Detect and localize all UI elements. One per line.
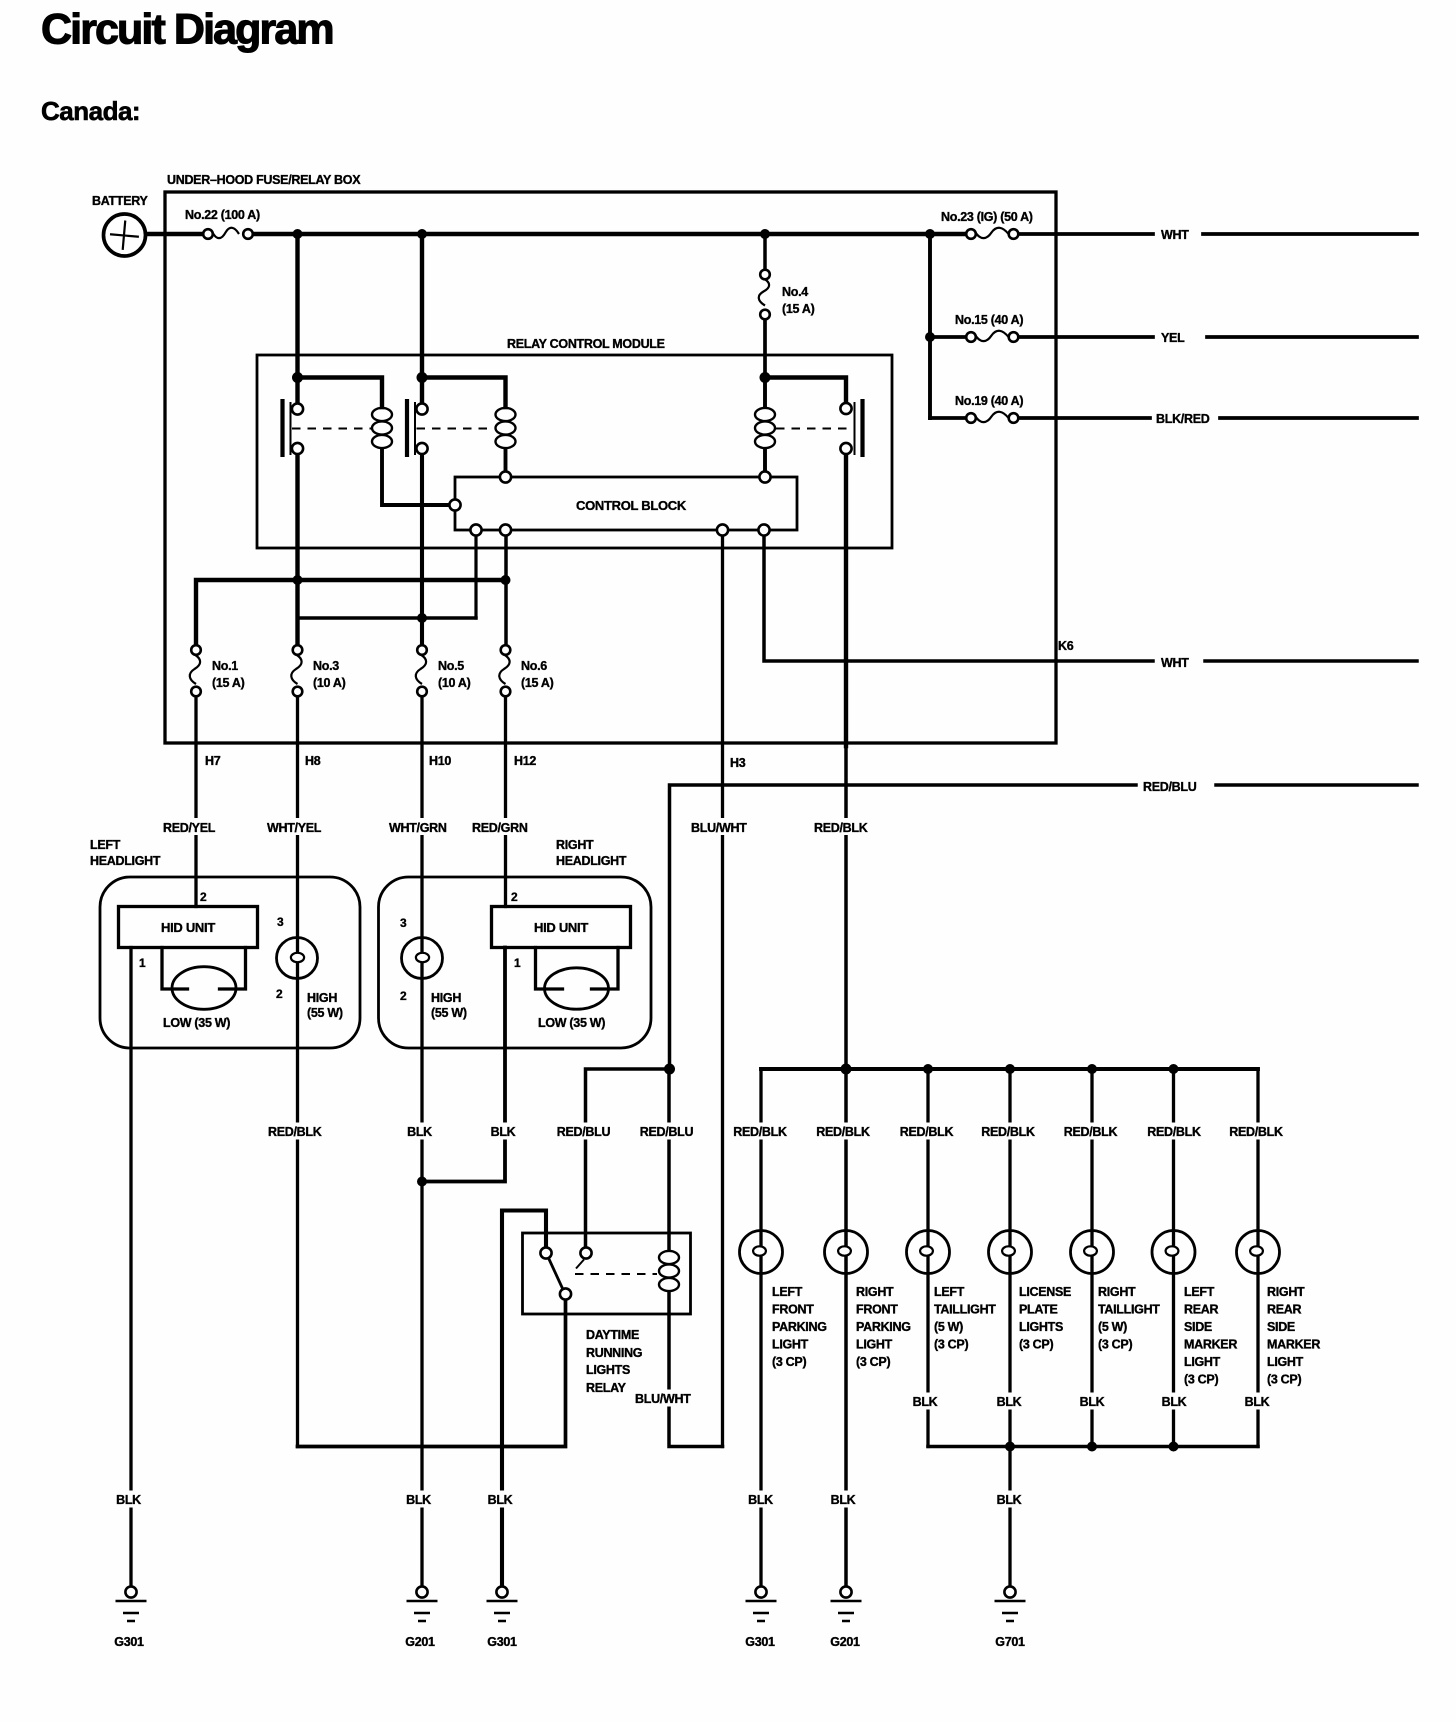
svg-text:RED/BLK: RED/BLK <box>816 1125 870 1139</box>
svg-text:G301: G301 <box>745 1635 775 1649</box>
relay 2 switch contacts <box>407 399 494 457</box>
svg-text:1: 1 <box>139 956 146 970</box>
node bus-relay2 <box>417 229 427 239</box>
wire WHT output after No.23 <box>1019 232 1418 236</box>
right headlight box <box>379 877 652 1048</box>
svg-text:RED/BLK: RED/BLK <box>1064 1125 1118 1139</box>
label RED/BLU coil <box>636 1123 698 1140</box>
left high beam bulb HIGH (55 W) <box>277 938 318 979</box>
label left front parking light <box>772 1285 827 1369</box>
label BLK parking2 ground <box>828 1491 859 1508</box>
node bus-feeder <box>925 229 935 239</box>
svg-text:LIGHT: LIGHT <box>856 1338 893 1352</box>
right taillight bulb <box>1071 1231 1114 1274</box>
node BLK link <box>417 1177 427 1187</box>
battery <box>104 214 146 256</box>
left HID unit box <box>119 907 258 948</box>
label BLK bulb6 <box>1159 1393 1190 1410</box>
label RED/BLK bulb6 <box>1144 1123 1205 1140</box>
wire RED/BLK down to parking light bus <box>844 746 848 1586</box>
wire bus down to relay 2 <box>420 234 424 404</box>
svg-text:REAR: REAR <box>1184 1303 1218 1317</box>
svg-text:LICENSE: LICENSE <box>1019 1285 1071 1299</box>
svg-text:HID UNIT: HID UNIT <box>161 920 215 935</box>
svg-text:BLK: BLK <box>997 1493 1022 1507</box>
svg-text:(3 CP): (3 CP) <box>1184 1373 1218 1387</box>
relay 3 switch contacts <box>776 399 863 457</box>
svg-text:No.15 (40 A): No.15 (40 A) <box>955 313 1023 327</box>
svg-text:WHT: WHT <box>1161 228 1189 242</box>
wire DRL relay contact feed to ground <box>502 1211 546 1587</box>
svg-text:K6: K6 <box>1058 639 1074 653</box>
wire main bus after No.22 <box>254 232 967 236</box>
svg-text:No.5: No.5 <box>438 659 464 673</box>
fuse No.6 (15 A) <box>499 645 510 696</box>
relay 3 coil <box>755 408 775 448</box>
wire coil 1 to control block left pin <box>382 449 450 505</box>
wire relay 2 switch down to fuse No.5 <box>420 454 424 646</box>
label BLK bulb5 <box>1077 1393 1108 1410</box>
svg-text:2: 2 <box>400 989 407 1003</box>
svg-text:Circuit Diagram: Circuit Diagram <box>41 6 333 54</box>
label RED/BLK bulb3 <box>896 1123 957 1140</box>
svg-text:H3: H3 <box>730 756 746 770</box>
label BLK bulb7 <box>1242 1393 1273 1410</box>
svg-text:BLK: BLK <box>491 1125 516 1139</box>
label BLK col4 <box>487 1123 518 1140</box>
svg-text:No.3: No.3 <box>313 659 339 673</box>
ground G301 (left front parking) <box>746 1586 777 1621</box>
svg-text:H12: H12 <box>514 754 536 768</box>
svg-text:No.19 (40 A): No.19 (40 A) <box>955 394 1023 408</box>
label BLK DRL ground <box>485 1491 516 1508</box>
svg-text:SIDE: SIDE <box>1184 1320 1212 1334</box>
label right front parking light <box>856 1285 911 1369</box>
svg-text:RIGHT: RIGHT <box>1098 1285 1136 1299</box>
label RED/BLK bulb2 <box>813 1123 874 1140</box>
svg-text:G701: G701 <box>995 1635 1025 1649</box>
wire fuse No.3 through left high beam (WHT/YEL, RED/BLK) <box>296 696 299 1447</box>
node ground bus-license <box>1005 1442 1015 1452</box>
svg-text:No.1: No.1 <box>212 659 238 673</box>
label RED/BLK bulb7 <box>1226 1123 1287 1140</box>
label RED/GRN <box>470 818 534 835</box>
svg-text:RED/BLU: RED/BLU <box>557 1125 611 1139</box>
svg-text:LEFT: LEFT <box>772 1285 803 1299</box>
wire left high beam return to DRL relay switch <box>298 1300 566 1447</box>
wire left taillight drop <box>926 1069 929 1447</box>
wire RED/BLU to DRL relay coil <box>667 1069 671 1250</box>
label right taillight <box>1098 1285 1160 1352</box>
svg-text:DAYTIME: DAYTIME <box>586 1328 639 1342</box>
wire parking lights bus <box>761 1067 1258 1071</box>
svg-text:2: 2 <box>200 890 207 904</box>
svg-text:No.4: No.4 <box>782 285 808 299</box>
wire RED/BLU branch to relay contact <box>586 1069 670 1248</box>
wire node to coil 1 top <box>298 378 383 408</box>
wire H3 control block pin down (BLU/WHT) <box>721 536 724 1447</box>
svg-text:TAILLIGHT: TAILLIGHT <box>1098 1303 1160 1317</box>
node feeder-No.15 <box>925 332 935 342</box>
svg-text:WHT/YEL: WHT/YEL <box>267 821 322 835</box>
wire right taillight drop <box>1090 1069 1093 1447</box>
wire fuse No.6 to right HID unit (RED/GRN) <box>504 696 507 907</box>
wire right HID unit down (BLK) <box>422 948 505 1182</box>
license plate lights bulb <box>989 1231 1032 1274</box>
svg-text:2: 2 <box>276 987 283 1001</box>
fuse No.5 (10 A) <box>416 645 427 696</box>
wire fuse feeder vertical <box>928 234 932 418</box>
wire DRL coil out (BLU/WHT) to H3 <box>669 1292 723 1447</box>
label BLK left headlight ground <box>113 1491 144 1508</box>
label RED/BLU contact <box>553 1123 615 1140</box>
label BLU/WHT <box>689 818 753 835</box>
svg-text:WHT/GRN: WHT/GRN <box>389 821 447 835</box>
svg-text:(3 CP): (3 CP) <box>856 1355 890 1369</box>
wire BLK/RED output after No.19 <box>1019 416 1418 420</box>
label BLK parking1 ground <box>745 1491 776 1508</box>
label right rear side marker light <box>1267 1285 1320 1387</box>
wire right rear side marker drop <box>1256 1069 1259 1447</box>
node bus-left marker <box>1169 1064 1179 1074</box>
left low beam bulb LOW (35 W) <box>172 967 236 1010</box>
left rear side marker light bulb <box>1152 1231 1195 1274</box>
right rear side marker light bulb <box>1237 1231 1280 1274</box>
right low beam bulb LOW (35 W) <box>545 968 609 1009</box>
relay 1 switch contacts <box>283 399 372 457</box>
right HID unit box <box>492 907 631 948</box>
svg-text:H8: H8 <box>305 754 321 768</box>
svg-text:BLK/RED: BLK/RED <box>1156 412 1210 426</box>
svg-text:PARKING: PARKING <box>856 1320 911 1334</box>
svg-text:BLK: BLK <box>997 1395 1022 1409</box>
left front parking light bulb <box>740 1231 783 1274</box>
daytime running lights relay coil <box>659 1251 679 1291</box>
svg-text:YEL: YEL <box>1161 331 1185 345</box>
wire bus to fuse No.3 <box>298 616 477 619</box>
svg-text:LIGHTS: LIGHTS <box>586 1363 630 1377</box>
label RED/BLK bulb4 <box>978 1123 1039 1140</box>
wire relay 3 switch down (RED/BLK) <box>844 454 848 747</box>
svg-text:No.6: No.6 <box>521 659 547 673</box>
wire coil 3 to control block top pin <box>763 449 767 472</box>
svg-text:BLK: BLK <box>1245 1395 1270 1409</box>
wire stub to No.19 fuse <box>930 416 966 420</box>
svg-text:BLK: BLK <box>488 1493 513 1507</box>
svg-text:(55 W): (55 W) <box>307 1006 343 1020</box>
relay control module box <box>257 355 892 548</box>
fuse No.15 (40 A) <box>966 331 1018 342</box>
svg-text:RED/BLK: RED/BLK <box>900 1125 954 1139</box>
wire coil 2 to control block top pin <box>504 449 508 472</box>
node ground bus-right taillight <box>1087 1442 1097 1452</box>
node bus-No.4 <box>760 229 770 239</box>
fuse No.4 (15 A) <box>759 270 770 320</box>
node relay3 top <box>760 372 771 383</box>
label BLU/WHT coil out <box>633 1390 697 1407</box>
svg-text:RED/BLK: RED/BLK <box>814 821 868 835</box>
svg-text:Canada:: Canada: <box>41 96 140 126</box>
svg-text:RED/BLK: RED/BLK <box>268 1125 322 1139</box>
svg-text:3: 3 <box>400 916 407 930</box>
svg-text:BLU/WHT: BLU/WHT <box>691 821 747 835</box>
svg-text:(3 CP): (3 CP) <box>934 1338 968 1352</box>
wire control block pin to fuse No.3 bus <box>474 536 477 619</box>
ground G301 (left headlight) <box>116 1586 147 1621</box>
svg-text:BLK: BLK <box>407 1125 432 1139</box>
svg-text:(3 CP): (3 CP) <box>1098 1338 1132 1352</box>
node bus-license <box>1005 1064 1015 1074</box>
label WHT/YEL <box>265 818 327 835</box>
svg-text:HIGH: HIGH <box>431 991 461 1005</box>
control block box U1 <box>455 477 797 530</box>
svg-text:TAILLIGHT: TAILLIGHT <box>934 1303 996 1317</box>
wire RED/BLU input line <box>670 785 1418 1069</box>
svg-text:RED/BLK: RED/BLK <box>981 1125 1035 1139</box>
svg-text:(55 W): (55 W) <box>431 1006 467 1020</box>
node No.6-bus <box>501 575 511 585</box>
node relay1 top <box>292 372 303 383</box>
svg-text:RED/BLU: RED/BLU <box>640 1125 694 1139</box>
svg-text:RIGHT: RIGHT <box>1267 1285 1305 1299</box>
label RED/BLK bulb1 <box>730 1123 791 1140</box>
wire stub to No.15 fuse <box>930 335 966 339</box>
node ground bus-left marker <box>1169 1442 1179 1452</box>
svg-text:(15 A): (15 A) <box>212 676 245 690</box>
svg-text:RED/BLK: RED/BLK <box>1229 1125 1283 1139</box>
wire license plate lights drop to ground <box>1008 1069 1011 1586</box>
svg-text:BLU/WHT: BLU/WHT <box>635 1392 691 1406</box>
wire right low beam legs <box>536 948 619 990</box>
wire control block pin to fuse No.6 <box>504 536 508 644</box>
wire fuse No.1 to left HID unit (RED/YEL) <box>194 696 197 907</box>
svg-text:1: 1 <box>514 956 521 970</box>
svg-text:CONTROL BLOCK: CONTROL BLOCK <box>576 498 687 513</box>
svg-text:FRONT: FRONT <box>856 1303 898 1317</box>
svg-text:RED/YEL: RED/YEL <box>163 821 216 835</box>
svg-text:No.22 (100 A): No.22 (100 A) <box>185 208 260 222</box>
svg-text:(15 A): (15 A) <box>782 302 815 316</box>
relay 2 coil <box>496 408 516 448</box>
node bus-relay1 <box>293 229 303 239</box>
svg-text:WHT: WHT <box>1161 656 1189 670</box>
svg-text:G301: G301 <box>487 1635 517 1649</box>
svg-text:LEFT: LEFT <box>90 838 121 852</box>
svg-text:LOW (35 W): LOW (35 W) <box>538 1016 605 1030</box>
svg-text:MARKER: MARKER <box>1184 1338 1237 1352</box>
wire bus to fuse No.4 <box>763 234 767 270</box>
svg-text:H10: H10 <box>429 754 451 768</box>
label BLK G701 ground <box>994 1491 1025 1508</box>
svg-text:BLK: BLK <box>748 1493 773 1507</box>
wire control block pin to K6 WHT output <box>764 536 1417 662</box>
svg-text:LIGHTS: LIGHTS <box>1019 1320 1063 1334</box>
wire battery to fuse No.22 <box>146 232 204 236</box>
wire node to coil 2 top <box>422 378 506 408</box>
under-hood fuse/relay box <box>165 192 1056 743</box>
node bus-left taillight <box>923 1064 933 1074</box>
wire node to relay 3 switch <box>765 378 846 404</box>
ground G701 (rear lights) <box>995 1586 1026 1621</box>
left headlight box <box>100 877 360 1048</box>
node bus-right taillight <box>1087 1064 1097 1074</box>
ground G301 (DRL relay) <box>487 1586 518 1621</box>
svg-text:PARKING: PARKING <box>772 1320 827 1334</box>
control block pins <box>449 471 770 535</box>
ground G201 (right front parking) <box>831 1586 862 1621</box>
svg-text:No.23 (IG) (50 A): No.23 (IG) (50 A) <box>941 210 1033 224</box>
svg-text:HID UNIT: HID UNIT <box>534 920 588 935</box>
label license plate lights <box>1019 1285 1071 1352</box>
fuse No.23 (IG) (50 A) <box>966 228 1018 239</box>
svg-text:MARKER: MARKER <box>1267 1338 1320 1352</box>
wire rear lights ground bus <box>928 1445 1258 1449</box>
svg-text:LIGHT: LIGHT <box>1267 1355 1304 1369</box>
svg-text:(15 A): (15 A) <box>521 676 554 690</box>
svg-text:RED/BLU: RED/BLU <box>1143 780 1197 794</box>
right front parking light bulb <box>825 1231 868 1274</box>
svg-text:H7: H7 <box>205 754 221 768</box>
wire relay 1 switch down to bus node <box>295 454 299 646</box>
svg-text:(3 CP): (3 CP) <box>1019 1338 1053 1352</box>
svg-text:LIGHT: LIGHT <box>772 1338 809 1352</box>
label RED/BLK relay3 <box>812 818 873 835</box>
svg-text:3: 3 <box>277 915 284 929</box>
fuse No.3 (10 A) <box>291 645 302 696</box>
svg-text:HEADLIGHT: HEADLIGHT <box>556 854 627 868</box>
fuse No.22 (100 A) <box>203 228 253 239</box>
wire fuse No.4 to relay node <box>763 320 767 378</box>
svg-text:LIGHT: LIGHT <box>1184 1355 1221 1369</box>
svg-text:RELAY CONTROL MODULE: RELAY CONTROL MODULE <box>507 337 665 351</box>
svg-text:RED/BLK: RED/BLK <box>1147 1125 1201 1139</box>
svg-text:(10 A): (10 A) <box>438 676 471 690</box>
right high beam bulb HIGH (55 W) <box>402 938 443 979</box>
wire YEL output after No.15 <box>1019 335 1418 339</box>
node No.5-bus <box>417 613 427 623</box>
label BLK col3 <box>404 1123 435 1140</box>
svg-text:BLK: BLK <box>116 1493 141 1507</box>
label RED/YEL <box>161 818 221 835</box>
fuse No.1 (15 A) <box>190 645 201 696</box>
svg-text:PLATE: PLATE <box>1019 1303 1058 1317</box>
wire left rear side marker drop <box>1172 1069 1175 1447</box>
svg-text:SIDE: SIDE <box>1267 1320 1295 1334</box>
svg-text:(10 A): (10 A) <box>313 676 346 690</box>
svg-text:BLK: BLK <box>1080 1395 1105 1409</box>
wire fuse No.5 through right high beam to ground (WHT/GRN, BLK) <box>420 696 423 1586</box>
svg-text:G201: G201 <box>830 1635 860 1649</box>
svg-text:BLK: BLK <box>913 1395 938 1409</box>
svg-text:LEFT: LEFT <box>1184 1285 1215 1299</box>
label BLK bulb4 <box>994 1393 1025 1410</box>
svg-text:HIGH: HIGH <box>307 991 337 1005</box>
svg-text:(5 W): (5 W) <box>934 1320 963 1334</box>
svg-text:UNDER–HOOD FUSE/RELAY BOX: UNDER–HOOD FUSE/RELAY BOX <box>167 173 361 187</box>
relay 1 coil <box>372 408 392 448</box>
label WHT/GRN <box>387 818 453 835</box>
ground G201 (right high beam) <box>407 1586 438 1621</box>
node switch1-bus <box>293 575 303 585</box>
svg-text:LOW (35 W): LOW (35 W) <box>163 1016 230 1030</box>
daytime running lights relay box K1 <box>523 1233 691 1314</box>
label BLK col3 ground <box>403 1491 434 1508</box>
svg-text:2: 2 <box>511 890 518 904</box>
left taillight bulb <box>907 1231 950 1274</box>
svg-text:RED/BLK: RED/BLK <box>733 1125 787 1139</box>
node RED/BLU split <box>664 1064 675 1075</box>
svg-text:REAR: REAR <box>1267 1303 1301 1317</box>
label left rear side marker light <box>1184 1285 1237 1387</box>
svg-text:RIGHT: RIGHT <box>556 838 594 852</box>
node RED/BLK-bus <box>841 1064 852 1075</box>
svg-text:(3 CP): (3 CP) <box>772 1355 806 1369</box>
node relay2 top <box>417 372 428 383</box>
svg-text:BLK: BLK <box>1162 1395 1187 1409</box>
fuse No.19 (40 A) <box>966 412 1018 423</box>
svg-text:(5 W): (5 W) <box>1098 1320 1127 1334</box>
svg-text:RED/GRN: RED/GRN <box>472 821 528 835</box>
daytime running lights relay internals <box>540 1247 657 1299</box>
svg-text:RELAY: RELAY <box>586 1381 627 1395</box>
svg-text:FRONT: FRONT <box>772 1303 814 1317</box>
svg-text:BLK: BLK <box>406 1493 431 1507</box>
label BLK bulb3 <box>910 1393 941 1410</box>
svg-text:G301: G301 <box>114 1635 144 1649</box>
svg-text:RIGHT: RIGHT <box>856 1285 894 1299</box>
svg-text:BLK: BLK <box>831 1493 856 1507</box>
wire bus down to relay 1 <box>295 234 299 404</box>
wire left low beam legs <box>162 948 246 990</box>
wire bus switch1 to fuse No.1 <box>196 580 506 645</box>
svg-text:HEADLIGHT: HEADLIGHT <box>90 854 161 868</box>
svg-text:BATTERY: BATTERY <box>92 194 148 208</box>
svg-text:LEFT: LEFT <box>934 1285 965 1299</box>
wire left front parking light drop to ground <box>759 1069 762 1586</box>
svg-text:RUNNING: RUNNING <box>586 1346 642 1360</box>
label RED/BLK col2 <box>266 1123 326 1140</box>
label left taillight <box>934 1285 996 1352</box>
wire node to coil 3 top <box>763 378 767 408</box>
svg-text:(3 CP): (3 CP) <box>1267 1373 1301 1387</box>
wire left HID pin 1 to ground <box>129 948 132 1587</box>
svg-text:G201: G201 <box>405 1635 435 1649</box>
label RED/BLK bulb5 <box>1060 1123 1121 1140</box>
